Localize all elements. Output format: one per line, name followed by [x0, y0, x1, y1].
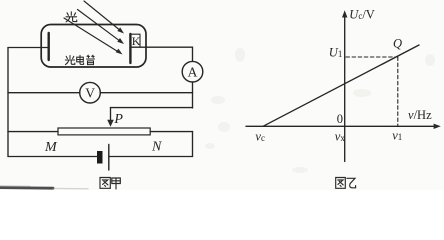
dashed line U1 to Q [346, 56, 398, 58]
wire: bottom rail right [109, 156, 193, 158]
light ray 3 [64, 18, 118, 52]
wire: voltmeter to node [100, 92, 192, 94]
svg-text:U1: U1 [329, 46, 343, 60]
svg-text:K: K [132, 34, 141, 48]
battery cell: short thick plate [97, 151, 103, 164]
label 光电管 (phototube) [65, 55, 94, 64]
wire: N end to right rail [150, 131, 192, 133]
svg-text:P: P [113, 112, 123, 127]
dashed line Q to nu1 [397, 57, 399, 126]
x axis nu [246, 125, 436, 127]
phototube envelope [41, 25, 146, 68]
cathode electrode (left plate) [48, 33, 50, 60]
wire: cathode to left rail [8, 47, 48, 49]
svg-text:0: 0 [337, 112, 343, 126]
svg-text:Q: Q [393, 37, 402, 51]
characteristic line [263, 45, 419, 126]
wire: bottom rail left [8, 156, 97, 158]
voltmeter V [80, 82, 101, 103]
wire: left rail to voltmeter [8, 92, 80, 94]
svg-text:ν1: ν1 [392, 129, 402, 143]
svg-text:ν/Hz: ν/Hz [408, 108, 432, 122]
wire: node down to slider feed [192, 93, 194, 108]
electrode K (right plate) [129, 34, 131, 63]
light ray 2 [78, 10, 120, 41]
svg-text:νx: νx [335, 129, 346, 143]
svg-text:Uc/V: Uc/V [349, 8, 375, 22]
wire: ammeter to node [192, 82, 194, 93]
label 光 (light) [66, 12, 77, 22]
svg-text:M: M [44, 140, 58, 155]
svg-text:V: V [85, 86, 95, 101]
ammeter A [182, 61, 203, 82]
wire: right rail down [192, 132, 194, 157]
wire: left rail to M end [8, 131, 58, 133]
svg-text:A: A [188, 65, 198, 80]
scan smudge bottom-left [0, 186, 53, 189]
slider arm P [110, 108, 112, 121]
svg-text:νc: νc [255, 130, 265, 144]
battery cell: long thin plate [108, 145, 110, 171]
label 图甲 (figure jia) [100, 178, 120, 190]
svg-text:N: N [151, 140, 162, 155]
light ray 1 [84, 1, 120, 30]
y axis Uc [344, 13, 346, 162]
potentiometer MN [58, 128, 150, 135]
wire: K to ammeter [132, 47, 193, 61]
label 图乙 (figure yi) [336, 178, 356, 189]
K label box [132, 34, 141, 47]
left rail wire [7, 48, 9, 157]
wire: slider feed horizontal [111, 107, 193, 109]
